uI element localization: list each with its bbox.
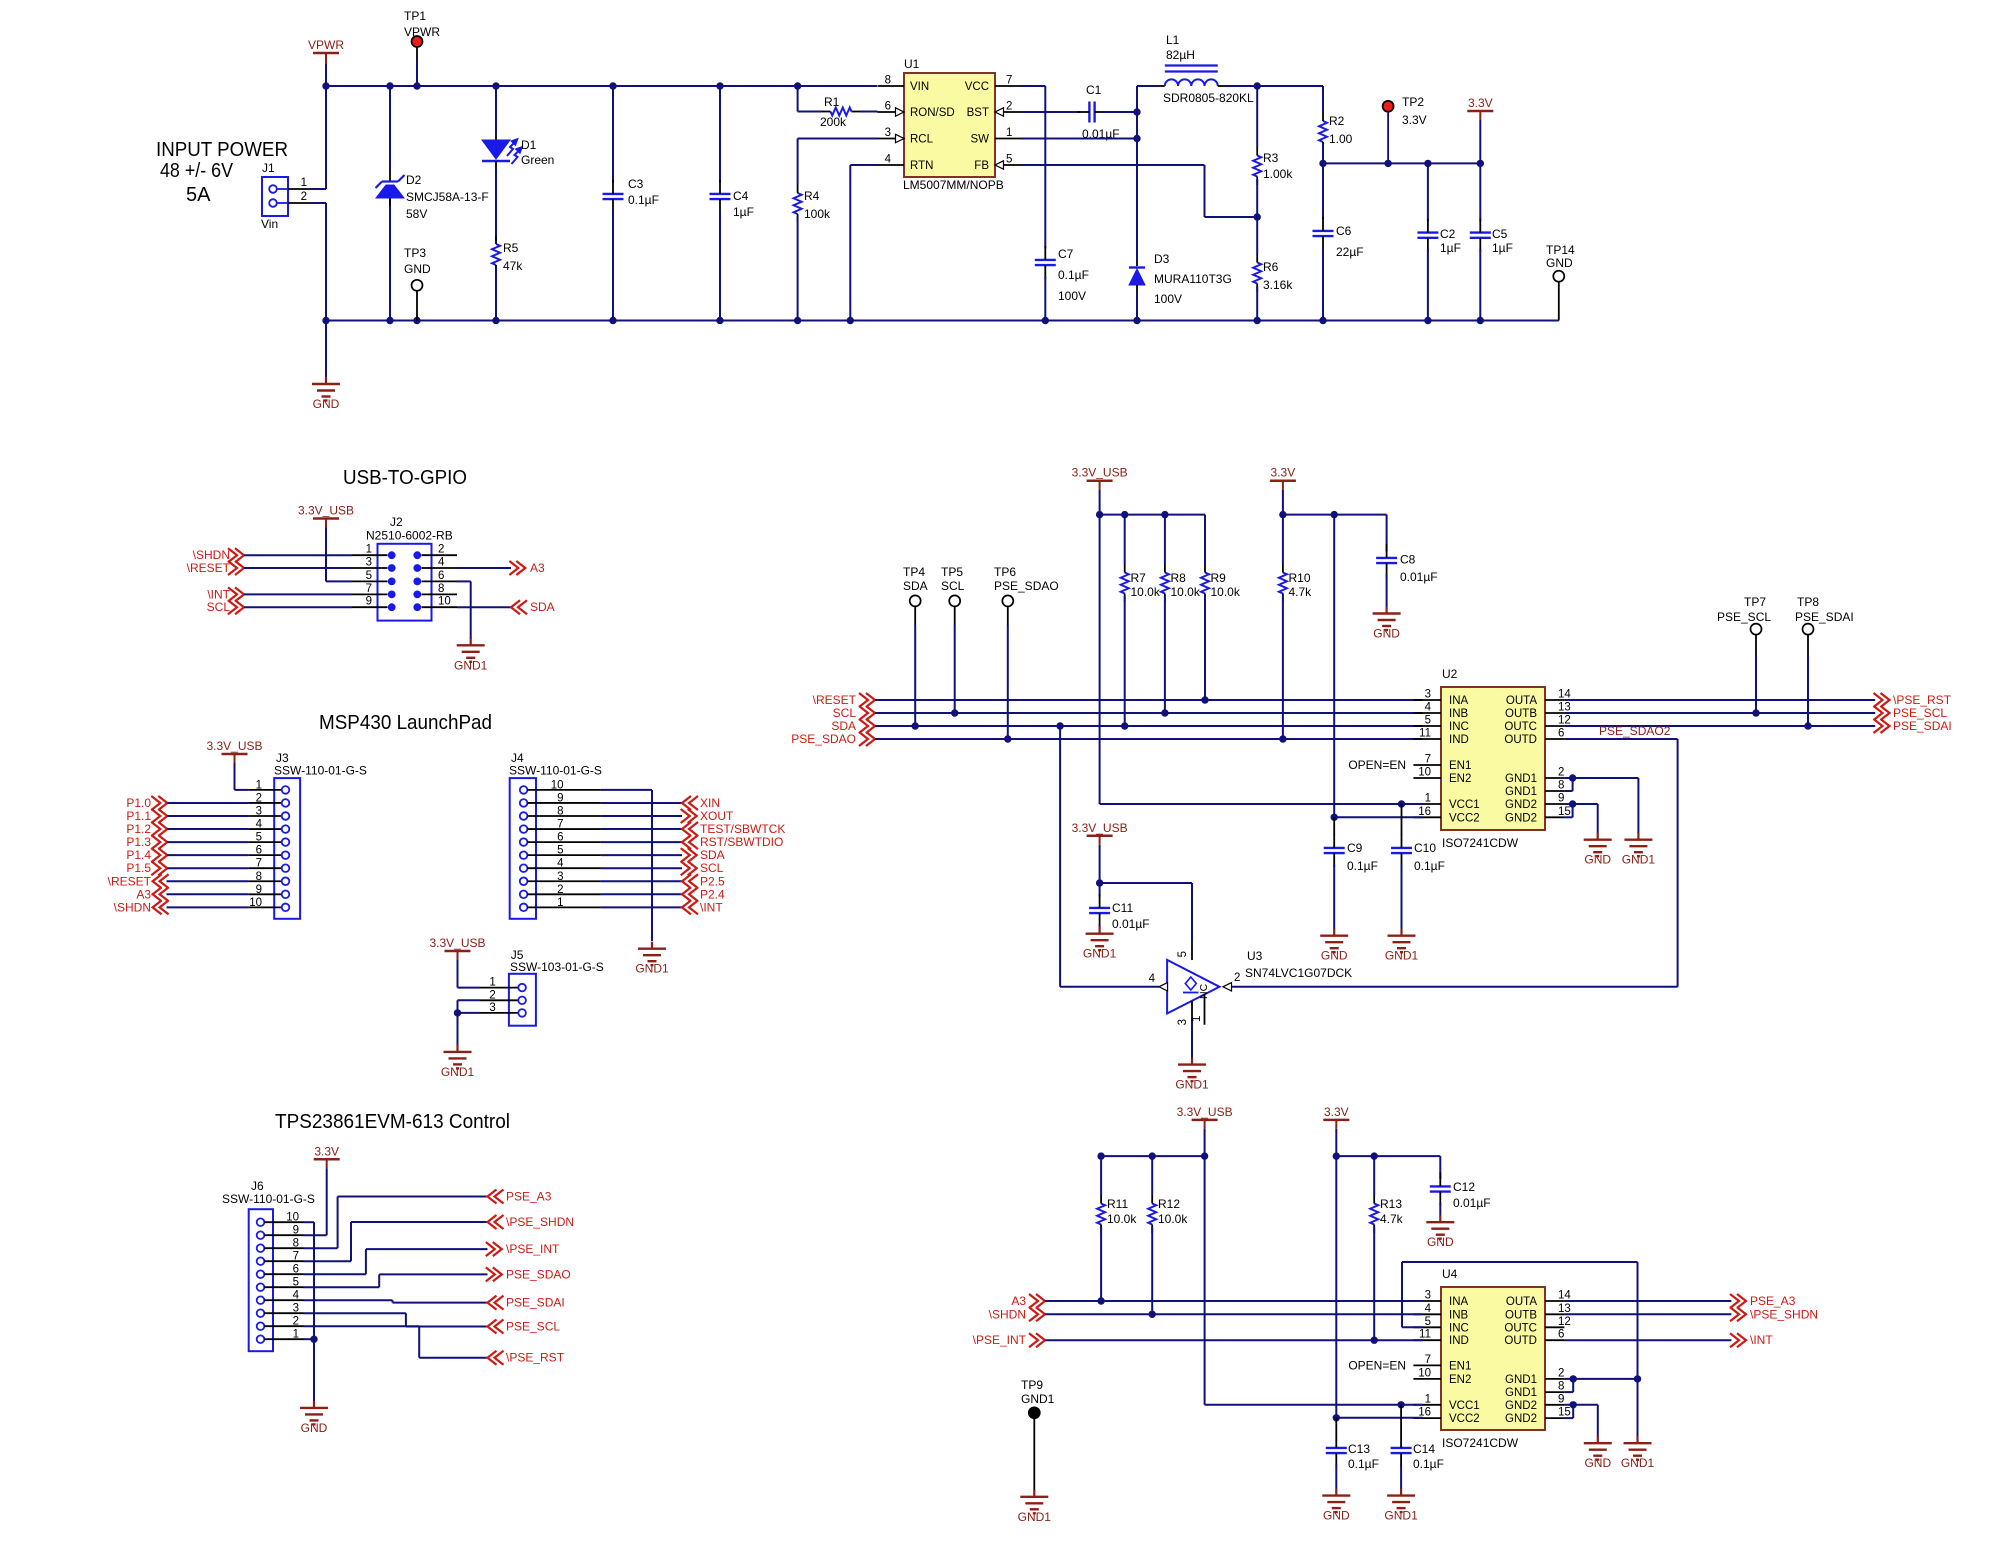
wire 3.3V_USB rail U2 bbox=[1096, 511, 1205, 564]
svg-text:6: 6 bbox=[1558, 728, 1564, 740]
svg-text:6: 6 bbox=[1558, 1329, 1564, 1341]
capacitor C5 bbox=[1470, 163, 1513, 320]
svg-text:C7: C7 bbox=[1058, 247, 1074, 261]
svg-text:\RESET: \RESET bbox=[813, 693, 857, 707]
wire 3.3V rail bbox=[1319, 160, 1484, 167]
svg-text:2: 2 bbox=[301, 191, 307, 203]
wire RTN leg bbox=[850, 165, 877, 321]
svg-text:SCL: SCL bbox=[207, 600, 231, 614]
ground GND1 J5 bbox=[441, 1045, 475, 1079]
svg-text:58V: 58V bbox=[406, 207, 427, 221]
svg-text:GND1: GND1 bbox=[1621, 1456, 1655, 1470]
svg-text:GND: GND bbox=[1323, 1509, 1350, 1523]
svg-text:82µH: 82µH bbox=[1166, 48, 1195, 62]
svg-text:2: 2 bbox=[489, 989, 495, 1001]
svg-text:OUTA: OUTA bbox=[1506, 1296, 1537, 1308]
svg-text:6: 6 bbox=[885, 101, 891, 113]
net flag PSE_SDAO J6 bbox=[304, 1267, 571, 1287]
capacitor C7 bbox=[1035, 246, 1089, 321]
wire U4 INC to GND1 bbox=[1402, 1262, 1641, 1437]
svg-text:PSE_SCL: PSE_SCL bbox=[1717, 610, 1771, 624]
capacitor C9 bbox=[1324, 817, 1378, 929]
svg-text:GND1: GND1 bbox=[1021, 1392, 1055, 1406]
net flag P1.0 J3 bbox=[126, 796, 248, 810]
ground GND1 U4 bbox=[1621, 1436, 1655, 1470]
svg-text:C1: C1 bbox=[1086, 83, 1102, 97]
svg-text:A3: A3 bbox=[530, 561, 545, 575]
svg-text:14: 14 bbox=[1558, 689, 1571, 701]
svg-text:2: 2 bbox=[1234, 972, 1240, 984]
svg-text:\INT: \INT bbox=[1750, 1333, 1773, 1347]
net flag \PSE_SHDN J6 bbox=[304, 1215, 575, 1261]
test point TP3 bbox=[404, 246, 431, 321]
power 3.3V_USB symbol J2 bbox=[298, 504, 354, 582]
svg-text:GND: GND bbox=[1546, 256, 1573, 270]
net flag XOUT J4 bbox=[601, 809, 734, 823]
wire OUTD PSE_SDAO2 bbox=[1232, 724, 1678, 987]
net flag P1.5 J3 bbox=[126, 861, 248, 875]
svg-text:MURA110T3G: MURA110T3G bbox=[1154, 272, 1232, 286]
svg-text:5: 5 bbox=[256, 832, 262, 844]
svg-text:2: 2 bbox=[293, 1316, 299, 1328]
svg-text:0.01µF: 0.01µF bbox=[1400, 570, 1438, 584]
capacitor C10 bbox=[1391, 804, 1445, 929]
power 3.3V symbol J6 bbox=[304, 1144, 340, 1235]
resistor R13 bbox=[1370, 1156, 1403, 1340]
svg-text:GND2: GND2 bbox=[1505, 799, 1537, 811]
svg-text:7: 7 bbox=[1425, 1354, 1431, 1366]
svg-text:A3: A3 bbox=[1011, 1294, 1026, 1308]
net flag \PSE_INT U4 bbox=[973, 1333, 1423, 1347]
svg-text:10: 10 bbox=[1418, 767, 1431, 779]
wire U3 input from SDA bbox=[1060, 726, 1159, 987]
svg-text:TP1: TP1 bbox=[404, 9, 426, 23]
svg-text:GND1: GND1 bbox=[1505, 1387, 1537, 1399]
capacitor C2 bbox=[1417, 163, 1461, 320]
net flag A3 J3 bbox=[136, 887, 248, 901]
svg-text:BST: BST bbox=[967, 107, 989, 119]
svg-text:SW: SW bbox=[970, 134, 989, 146]
capacitor C11 bbox=[1089, 883, 1150, 931]
svg-text:1: 1 bbox=[293, 1329, 299, 1341]
svg-text:4: 4 bbox=[1425, 1303, 1432, 1315]
resistor R12 bbox=[1148, 1156, 1188, 1314]
text TPS23861EVM-613 Control title bbox=[275, 1111, 510, 1133]
svg-text:2: 2 bbox=[1558, 767, 1564, 779]
net flag SDA J4 bbox=[601, 848, 725, 862]
svg-text:0.1µF: 0.1µF bbox=[1414, 859, 1445, 873]
test point TP2 bbox=[1383, 95, 1427, 163]
svg-text:SCL: SCL bbox=[833, 706, 857, 720]
svg-text:GND2: GND2 bbox=[1505, 812, 1537, 824]
capacitor C1 bbox=[1077, 83, 1137, 141]
svg-text:10: 10 bbox=[551, 779, 564, 791]
svg-text:OUTA: OUTA bbox=[1506, 695, 1537, 707]
svg-text:16: 16 bbox=[1418, 1407, 1431, 1419]
svg-text:SDA: SDA bbox=[903, 579, 928, 593]
svg-text:EN2: EN2 bbox=[1449, 1374, 1471, 1386]
svg-text:C3: C3 bbox=[628, 177, 644, 191]
svg-text:GND: GND bbox=[313, 397, 340, 411]
svg-text:L1: L1 bbox=[1166, 33, 1180, 47]
svg-text:OUTD: OUTD bbox=[1504, 734, 1537, 746]
svg-text:SSW-110-01-G-S: SSW-110-01-G-S bbox=[274, 764, 367, 778]
svg-text:GND1: GND1 bbox=[441, 1065, 475, 1079]
svg-text:6: 6 bbox=[256, 845, 262, 857]
svg-text:GND1: GND1 bbox=[1505, 773, 1537, 785]
svg-text:5: 5 bbox=[293, 1277, 299, 1289]
svg-text:8: 8 bbox=[1558, 1381, 1564, 1393]
svg-text:\PSE_INT: \PSE_INT bbox=[506, 1242, 560, 1256]
svg-text:TP4: TP4 bbox=[903, 565, 925, 579]
net flag P2.4 J4 bbox=[601, 887, 725, 901]
wire VCC1 U4 3.3V_USB leg bbox=[1205, 1156, 1423, 1408]
net flag \PSE_RST U2 bbox=[1564, 693, 1951, 707]
svg-text:10: 10 bbox=[1418, 1367, 1431, 1379]
svg-text:8: 8 bbox=[438, 583, 444, 595]
svg-text:GND2: GND2 bbox=[1505, 1400, 1537, 1412]
svg-text:9: 9 bbox=[366, 596, 372, 608]
svg-text:P2.4: P2.4 bbox=[700, 887, 725, 901]
svg-text:RCL: RCL bbox=[910, 134, 934, 146]
test point TP7 bbox=[1717, 595, 1771, 713]
svg-text:OPEN=EN: OPEN=EN bbox=[1348, 758, 1406, 772]
svg-text:TP9: TP9 bbox=[1021, 1378, 1043, 1392]
svg-text:3: 3 bbox=[366, 557, 372, 569]
svg-text:3.3V_USB: 3.3V_USB bbox=[1177, 1105, 1233, 1119]
svg-text:SDA: SDA bbox=[700, 848, 725, 862]
svg-text:TEST/SBWTCK: TEST/SBWTCK bbox=[700, 822, 785, 836]
svg-text:1µF: 1µF bbox=[1440, 241, 1461, 255]
svg-text:GND1: GND1 bbox=[1505, 786, 1537, 798]
svg-text:10.0k: 10.0k bbox=[1171, 585, 1201, 599]
connector J6 bbox=[222, 1179, 315, 1351]
svg-text:C5: C5 bbox=[1492, 227, 1508, 241]
net flag \SHDN J3 bbox=[114, 900, 249, 914]
svg-text:3: 3 bbox=[1177, 1019, 1189, 1025]
svg-text:5: 5 bbox=[1425, 715, 1431, 727]
op-amp U1 LM5007 bbox=[878, 57, 1022, 192]
svg-text:VIN: VIN bbox=[910, 81, 929, 93]
svg-text:RON/SD: RON/SD bbox=[910, 107, 955, 119]
svg-text:A3: A3 bbox=[136, 887, 151, 901]
svg-text:SDA: SDA bbox=[530, 600, 555, 614]
svg-text:10.0k: 10.0k bbox=[1107, 1212, 1137, 1226]
svg-text:R13: R13 bbox=[1380, 1197, 1402, 1211]
svg-text:1: 1 bbox=[301, 177, 307, 189]
op-amp U2 ISO7241CDW bbox=[1348, 667, 1571, 850]
wire U2 GND1 pins bbox=[1564, 774, 1638, 833]
svg-text:14: 14 bbox=[1558, 1290, 1571, 1302]
svg-text:10.0k: 10.0k bbox=[1158, 1212, 1188, 1226]
svg-text:3: 3 bbox=[557, 871, 563, 883]
inductor L1 bbox=[1137, 33, 1323, 105]
net flag PSE_SDAI U2 bbox=[1564, 719, 1951, 733]
wire J6 pin10 pin1 GND bbox=[304, 1222, 318, 1401]
net flag XIN J4 bbox=[601, 796, 720, 810]
ground GND C13 bbox=[1322, 1489, 1350, 1523]
svg-text:3.3V_USB: 3.3V_USB bbox=[1072, 466, 1128, 480]
svg-text:INA: INA bbox=[1449, 1296, 1469, 1308]
resistor R9 bbox=[1201, 564, 1241, 700]
svg-text:100k: 100k bbox=[804, 207, 831, 221]
svg-text:100V: 100V bbox=[1154, 292, 1182, 306]
svg-text:INB: INB bbox=[1449, 708, 1469, 720]
svg-text:C8: C8 bbox=[1400, 553, 1416, 567]
svg-text:3.3V_USB: 3.3V_USB bbox=[1072, 821, 1128, 835]
net flag \RESET J2 bbox=[187, 561, 352, 575]
svg-text:9: 9 bbox=[1558, 793, 1564, 805]
svg-text:RTN: RTN bbox=[910, 160, 933, 172]
svg-text:7: 7 bbox=[366, 583, 372, 595]
resistor R4 bbox=[794, 139, 878, 321]
svg-text:0.01µF: 0.01µF bbox=[1453, 1196, 1491, 1210]
svg-text:R11: R11 bbox=[1107, 1197, 1128, 1211]
svg-text:GND: GND bbox=[1373, 627, 1400, 641]
text MSP430 LaunchPad title bbox=[319, 712, 492, 734]
svg-text:47k: 47k bbox=[503, 259, 523, 273]
connector J5 bbox=[480, 948, 604, 1026]
svg-text:3.3V: 3.3V bbox=[1402, 113, 1427, 127]
svg-text:PSE_SDAO: PSE_SDAO bbox=[994, 579, 1059, 593]
svg-text:16: 16 bbox=[1418, 806, 1431, 818]
net flag \PSE_RST J6 bbox=[304, 1326, 565, 1365]
net flag PSE_A3 J6 bbox=[304, 1190, 552, 1249]
wire U4 GND2 pins bbox=[1564, 1401, 1597, 1437]
resistor R2 bbox=[1319, 86, 1353, 163]
svg-text:SSW-110-01-G-S: SSW-110-01-G-S bbox=[222, 1192, 315, 1206]
net flag PSE_SCL U2 bbox=[1564, 706, 1947, 720]
power 3.3V symbol top bbox=[1467, 96, 1493, 163]
svg-text:EN2: EN2 bbox=[1449, 773, 1471, 785]
svg-text:0.1µF: 0.1µF bbox=[1058, 268, 1089, 282]
svg-text:6: 6 bbox=[293, 1264, 299, 1276]
svg-text:INPUT POWER: INPUT POWER bbox=[156, 139, 288, 161]
svg-text:1µF: 1µF bbox=[733, 205, 754, 219]
svg-text:GND: GND bbox=[1427, 1235, 1454, 1249]
svg-text:2: 2 bbox=[557, 884, 563, 896]
svg-text:IND: IND bbox=[1449, 1335, 1469, 1347]
svg-text:0.1µF: 0.1µF bbox=[1413, 1457, 1444, 1471]
svg-text:1: 1 bbox=[1006, 127, 1012, 139]
svg-text:5: 5 bbox=[557, 845, 563, 857]
svg-text:C4: C4 bbox=[733, 189, 749, 203]
svg-text:SN74LVC1G07DCK: SN74LVC1G07DCK bbox=[1245, 966, 1352, 980]
capacitor C6 bbox=[1313, 163, 1364, 320]
power 3.3V_USB symbol C11 bbox=[1072, 821, 1128, 883]
svg-text:TP8: TP8 bbox=[1797, 595, 1819, 609]
net flag \PSE_SHDN U4 bbox=[1564, 1307, 1818, 1321]
svg-text:9: 9 bbox=[557, 792, 563, 804]
net flag PSE_A3 U4 bbox=[1564, 1294, 1795, 1308]
svg-text:12: 12 bbox=[1558, 1316, 1571, 1328]
svg-text:2: 2 bbox=[438, 544, 444, 556]
svg-text:1µF: 1µF bbox=[1492, 241, 1513, 255]
svg-text:11: 11 bbox=[1419, 728, 1431, 740]
svg-text:TP3: TP3 bbox=[404, 246, 426, 260]
svg-text:13: 13 bbox=[1558, 1303, 1571, 1315]
net flag SCL J4 bbox=[601, 861, 724, 875]
ground GND C9 bbox=[1320, 929, 1348, 963]
svg-text:100V: 100V bbox=[1058, 289, 1086, 303]
svg-text:\PSE_RST: \PSE_RST bbox=[1893, 693, 1952, 707]
svg-text:VCC2: VCC2 bbox=[1449, 1413, 1480, 1425]
svg-text:SDA: SDA bbox=[831, 719, 856, 733]
svg-text:3.16k: 3.16k bbox=[1263, 278, 1293, 292]
svg-text:SCL: SCL bbox=[941, 579, 965, 593]
svg-text:\PSE_INT: \PSE_INT bbox=[973, 1333, 1027, 1347]
svg-text:INC: INC bbox=[1449, 1322, 1469, 1334]
svg-text:U4: U4 bbox=[1442, 1267, 1458, 1281]
svg-text:8: 8 bbox=[885, 75, 891, 87]
ground GND1 C14 bbox=[1384, 1489, 1418, 1523]
svg-text:GND: GND bbox=[1584, 1456, 1611, 1470]
svg-text:GND1: GND1 bbox=[1083, 947, 1117, 961]
ground GND C12 bbox=[1426, 1215, 1454, 1249]
resistor R6 bbox=[1253, 217, 1293, 321]
svg-text:PSE_SDAI: PSE_SDAI bbox=[506, 1296, 565, 1310]
svg-text:13: 13 bbox=[1558, 702, 1571, 714]
svg-text:TP7: TP7 bbox=[1744, 595, 1766, 609]
svg-text:RST/SBWTDIO: RST/SBWTDIO bbox=[700, 835, 783, 849]
svg-text:R5: R5 bbox=[503, 241, 519, 255]
op-amp U4 ISO7241CDW bbox=[1348, 1267, 1571, 1450]
svg-text:VCC1: VCC1 bbox=[1449, 799, 1480, 811]
svg-text:C13: C13 bbox=[1348, 1442, 1370, 1456]
net flag PSE_SDAI J6 bbox=[304, 1296, 565, 1310]
svg-text:INA: INA bbox=[1449, 695, 1469, 707]
svg-text:C10: C10 bbox=[1414, 841, 1436, 855]
svg-text:12: 12 bbox=[1558, 715, 1571, 727]
net flag A3 U4 bbox=[1011, 1294, 1422, 1308]
diode D2 zener bbox=[376, 86, 489, 321]
svg-text:R2: R2 bbox=[1329, 114, 1345, 128]
power 3.3V_USB symbol U4 bbox=[1177, 1105, 1233, 1156]
power 3.3V_USB symbol J3 bbox=[206, 739, 262, 790]
svg-text:GND1: GND1 bbox=[1622, 853, 1656, 867]
svg-text:6: 6 bbox=[557, 832, 563, 844]
svg-text:C9: C9 bbox=[1347, 841, 1363, 855]
ground GND main bbox=[312, 321, 340, 412]
svg-text:9: 9 bbox=[256, 884, 262, 896]
resistor R5 bbox=[492, 235, 523, 321]
svg-text:\SHDN: \SHDN bbox=[114, 900, 151, 914]
svg-text:Vin: Vin bbox=[261, 217, 278, 231]
ground GND J6 bbox=[300, 1401, 328, 1435]
wire U4 GND1 pins bbox=[1564, 1375, 1637, 1392]
capacitor C8 bbox=[1376, 544, 1438, 607]
svg-text:D3: D3 bbox=[1154, 252, 1170, 266]
ground GND U4 bbox=[1584, 1436, 1612, 1470]
svg-text:5: 5 bbox=[1006, 154, 1012, 166]
svg-text:VCC1: VCC1 bbox=[1449, 1400, 1480, 1412]
svg-text:PSE_A3: PSE_A3 bbox=[506, 1190, 552, 1204]
ground GND1 J2 bbox=[454, 638, 488, 672]
svg-text:LM5007MM/NOPB: LM5007MM/NOPB bbox=[903, 178, 1004, 192]
svg-text:C14: C14 bbox=[1413, 1442, 1435, 1456]
power VPWR symbol bbox=[308, 38, 344, 64]
svg-text:OUTB: OUTB bbox=[1505, 708, 1537, 720]
svg-text:4: 4 bbox=[1149, 973, 1156, 985]
svg-text:XIN: XIN bbox=[700, 796, 720, 810]
power 3.3V symbol U4 bbox=[1323, 1105, 1349, 1156]
svg-text:3: 3 bbox=[1425, 1290, 1431, 1302]
svg-text:GND1: GND1 bbox=[454, 658, 488, 672]
svg-text:R3: R3 bbox=[1263, 151, 1279, 165]
svg-text:GND: GND bbox=[1584, 853, 1611, 867]
svg-text:OUTC: OUTC bbox=[1504, 721, 1537, 733]
svg-text:C6: C6 bbox=[1336, 224, 1352, 238]
svg-text:11: 11 bbox=[1419, 1329, 1431, 1341]
svg-text:9: 9 bbox=[1558, 1393, 1564, 1405]
svg-text:OUTC: OUTC bbox=[1504, 1322, 1537, 1334]
svg-text:SMCJ58A-13-F: SMCJ58A-13-F bbox=[406, 190, 489, 204]
wire BST bbox=[1021, 111, 1080, 113]
net flag \INT J4 bbox=[601, 900, 723, 914]
svg-text:TP6: TP6 bbox=[994, 565, 1016, 579]
svg-text:SSW-103-01-G-S: SSW-103-01-G-S bbox=[510, 960, 604, 974]
svg-text:\PSE_SHDN: \PSE_SHDN bbox=[506, 1215, 574, 1229]
svg-text:P1.2: P1.2 bbox=[126, 822, 151, 836]
svg-text:10: 10 bbox=[249, 897, 262, 909]
power 3.3V_USB symbol J5 bbox=[429, 936, 485, 988]
net flag RST/SBWTDIO J4 bbox=[601, 835, 783, 849]
svg-text:EN1: EN1 bbox=[1449, 1360, 1471, 1372]
transistor U3 SN74LVC1G07 buffer bbox=[1149, 940, 1353, 1025]
svg-text:R8: R8 bbox=[1171, 571, 1187, 585]
svg-text:3.3V: 3.3V bbox=[314, 1144, 339, 1158]
power 3.3V_USB symbol U2 bbox=[1072, 466, 1128, 515]
svg-text:GND1: GND1 bbox=[1505, 1374, 1537, 1386]
connector J1 bbox=[261, 161, 312, 231]
net flag \RESET U2 bbox=[813, 693, 1423, 707]
svg-text:1: 1 bbox=[1425, 1393, 1431, 1405]
svg-text:4: 4 bbox=[1425, 702, 1432, 714]
svg-text:R10: R10 bbox=[1289, 571, 1311, 585]
svg-text:GND: GND bbox=[404, 262, 431, 276]
net flag P1.4 J3 bbox=[126, 848, 248, 862]
svg-text:7: 7 bbox=[1425, 754, 1431, 766]
ground GND1 C11 bbox=[1083, 927, 1117, 961]
net flag P1.3 J3 bbox=[126, 835, 248, 849]
net flag SCL J2 bbox=[207, 600, 352, 614]
svg-text:C11: C11 bbox=[1112, 901, 1133, 915]
test point TP8 bbox=[1795, 595, 1854, 726]
svg-text:SCL: SCL bbox=[700, 861, 724, 875]
svg-text:TP2: TP2 bbox=[1402, 95, 1424, 109]
svg-text:MSP430 LaunchPad: MSP430 LaunchPad bbox=[319, 712, 492, 734]
svg-text:3.3V: 3.3V bbox=[1324, 1105, 1349, 1119]
ground GND U2 bbox=[1584, 833, 1612, 867]
svg-text:P1.3: P1.3 bbox=[126, 835, 151, 849]
svg-text:GND1: GND1 bbox=[1384, 1509, 1418, 1523]
svg-text:J1: J1 bbox=[262, 161, 275, 175]
net flag \INT J2 bbox=[207, 587, 352, 601]
text INPUT POWER title bbox=[156, 139, 288, 206]
svg-text:TPS23861EVM-613 Control: TPS23861EVM-613 Control bbox=[275, 1111, 510, 1133]
test point TP5 bbox=[941, 565, 965, 713]
ground GND1 C10 bbox=[1385, 929, 1419, 963]
svg-text:3.3V_USB: 3.3V_USB bbox=[206, 739, 262, 753]
diode D3 bbox=[1129, 252, 1232, 321]
svg-text:SSW-110-01-G-S: SSW-110-01-G-S bbox=[509, 764, 602, 778]
svg-text:C2: C2 bbox=[1440, 227, 1456, 241]
wire C11 node bbox=[1096, 879, 1192, 940]
svg-text:2: 2 bbox=[256, 792, 262, 804]
ground GND1 U3 bbox=[1175, 1058, 1209, 1092]
svg-text:8: 8 bbox=[557, 806, 563, 818]
test point TP14 bbox=[1546, 243, 1575, 321]
